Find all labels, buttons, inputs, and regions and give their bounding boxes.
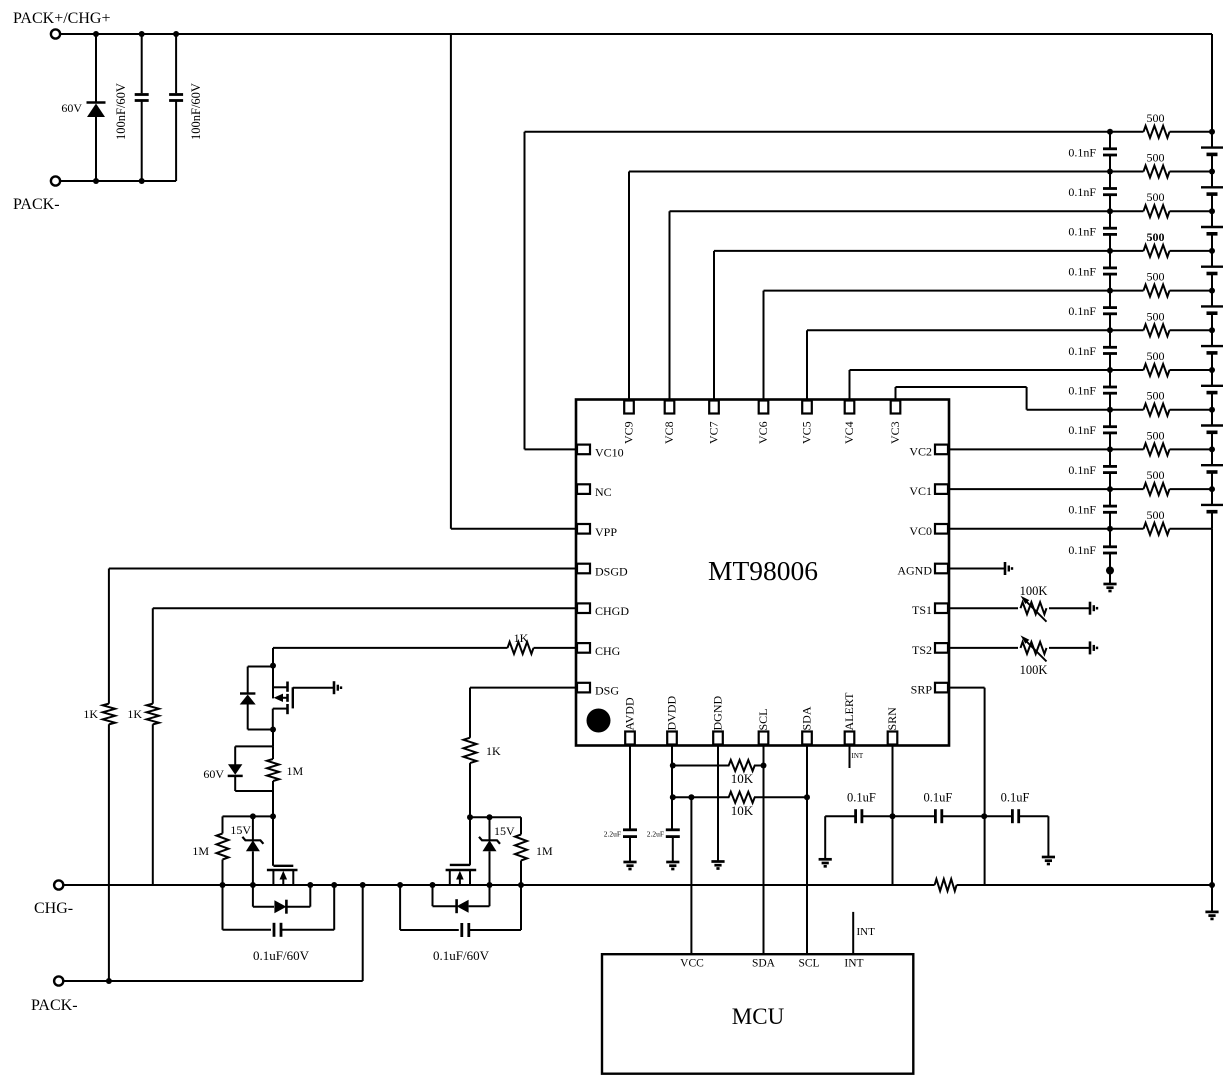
junction SRN filter xyxy=(890,813,896,819)
pin VC5 (top) xyxy=(802,401,812,414)
resistor R11 500 (row VC0) xyxy=(1110,528,1144,530)
wire VC0 trace xyxy=(949,528,1110,530)
svg-text:INT: INT xyxy=(852,752,864,760)
resistor R9 500 (row VC2) xyxy=(1110,448,1144,450)
pin SDA (bottom) xyxy=(802,732,812,745)
svg-text:TS2: TS2 xyxy=(912,643,932,657)
svg-text:10K: 10K xyxy=(731,803,754,818)
IC U1 MT98006 body xyxy=(576,400,949,746)
junction bus/row VC7 xyxy=(1107,248,1113,254)
svg-text:NC: NC xyxy=(595,485,612,499)
wire TS1 left xyxy=(949,607,1018,609)
junction rail cap-r Q2 xyxy=(331,882,337,888)
resistor R6 500 (row VC5) xyxy=(1110,329,1144,331)
junction rail 1M Q2 xyxy=(220,882,226,888)
junction bus/row VC10 xyxy=(1107,129,1113,135)
svg-text:0.1uF: 0.1uF xyxy=(847,791,876,805)
svg-text:0.1nF: 0.1nF xyxy=(1068,344,1096,358)
svg-text:VC8: VC8 xyxy=(662,421,676,444)
capacitor C 0.1uF (SRP-GND) xyxy=(1011,809,1014,823)
svg-text:VC0: VC0 xyxy=(909,524,932,538)
svg-text:0.1nF: 0.1nF xyxy=(1068,185,1096,199)
svg-text:500: 500 xyxy=(1147,349,1165,363)
svg-text:500: 500 xyxy=(1147,190,1165,204)
svg-text:VC4: VC4 xyxy=(842,421,856,444)
AGND stub symbol xyxy=(1004,562,1007,575)
capacitor C 0.1nF (VC1-VC0) xyxy=(1109,489,1111,506)
wire Q3 gate lead xyxy=(469,817,471,865)
svg-text:2.2uF: 2.2uF xyxy=(647,830,664,839)
junction bus/row VC9 xyxy=(1107,169,1113,175)
junction cell bus/row VC10 xyxy=(1209,129,1215,135)
wire VC9 trace xyxy=(628,172,630,400)
wire DGND xyxy=(717,746,719,862)
wire Q1 source lead xyxy=(272,666,274,699)
wire DSGD xyxy=(109,568,576,570)
svg-text:CHG: CHG xyxy=(595,644,621,658)
svg-text:0.1uF/60V: 0.1uF/60V xyxy=(253,948,310,963)
svg-text:60V: 60V xyxy=(203,767,224,781)
junction Q1 drain node xyxy=(270,727,276,733)
svg-text:0.1nF: 0.1nF xyxy=(1068,423,1096,437)
resistor R 1K (DSG) xyxy=(464,738,477,763)
capacitor C 0.1nF (VC6-VC5) xyxy=(1109,291,1111,308)
svg-text:0.1nF: 0.1nF xyxy=(1068,145,1096,159)
svg-text:DSG: DSG xyxy=(595,684,619,698)
junction link top xyxy=(360,882,366,888)
junction gate-zener Q3 xyxy=(487,814,493,820)
svg-text:VCC: VCC xyxy=(680,958,704,970)
junction 10K1 SCL xyxy=(761,763,767,769)
wire C1 branch xyxy=(141,34,143,93)
pin SCL (bottom) xyxy=(759,732,769,745)
capacitor C2 100nF/60V xyxy=(169,93,183,96)
svg-text:AVDD: AVDD xyxy=(623,697,637,730)
wire cell bus bottom xyxy=(1211,529,1213,885)
battery cell B7 xyxy=(1211,251,1213,266)
svg-text:VC5: VC5 xyxy=(800,421,814,444)
capacitor C 0.1nF (VC4-VC3) xyxy=(1109,370,1111,387)
pin SRN (bottom) xyxy=(888,732,898,745)
capacitor C 0.1nF (VC8-VC7) xyxy=(1109,211,1111,228)
junction bus/row VC6 xyxy=(1107,288,1113,294)
svg-text:VC2: VC2 xyxy=(909,444,932,458)
transistor Q3 legs xyxy=(449,870,451,885)
ground cell bus xyxy=(1211,885,1213,911)
wire C2 branch xyxy=(175,34,177,93)
wire VC7 trace xyxy=(713,251,715,400)
junction cell bus/row VC7 xyxy=(1209,248,1215,254)
wire Q1 gate lead xyxy=(293,687,333,689)
svg-text:0.1nF: 0.1nF xyxy=(1068,503,1096,517)
wire CHG left xyxy=(273,647,508,649)
pin VC7 (top) xyxy=(709,401,719,414)
wire VC8 trace xyxy=(669,211,671,399)
wire filter mid1 xyxy=(862,815,936,817)
pin TS1 (right) xyxy=(935,603,948,613)
svg-text:1M: 1M xyxy=(192,844,209,858)
svg-text:500: 500 xyxy=(1147,309,1165,323)
svg-text:VC9: VC9 xyxy=(622,421,636,444)
wire TS2 left xyxy=(949,647,1018,649)
svg-text:500: 500 xyxy=(1147,270,1165,284)
capacitor C 0.1nF (VC3-VC2) xyxy=(1109,410,1111,427)
transistor Q1 body arrow xyxy=(280,697,288,699)
svg-text:1M: 1M xyxy=(287,764,304,778)
svg-text:SCL: SCL xyxy=(756,708,770,730)
thermistor RT1 100K xyxy=(1021,602,1047,614)
pin VC9 (top) xyxy=(624,401,634,414)
transistor Q1 contacts xyxy=(286,682,289,692)
svg-text:MT98006: MT98006 xyxy=(708,555,818,586)
ground DGND xyxy=(711,860,724,863)
wire filter mid2 xyxy=(942,815,1013,817)
junction on PACK+ rail at D1 xyxy=(93,31,99,37)
capacitor C 0.1uF (SRN-GND) xyxy=(854,809,857,823)
terminal CHG- xyxy=(54,880,63,889)
transistor Q3 channel xyxy=(446,869,477,872)
IC pin-1 marker xyxy=(587,709,611,733)
svg-text:500: 500 xyxy=(1147,508,1165,522)
wire SCL to MCU xyxy=(763,746,765,955)
pin VC2 (right) xyxy=(935,445,948,455)
svg-text:100nF/60V: 100nF/60V xyxy=(114,83,128,140)
svg-text:0.1uF/60V: 0.1uF/60V xyxy=(433,948,490,963)
sense resistor R shunt xyxy=(935,879,957,891)
transistor Q2 channel xyxy=(267,869,298,872)
svg-text:SDA: SDA xyxy=(800,706,814,730)
junction on PACK+ rail at C1 xyxy=(139,31,145,37)
svg-text:INT: INT xyxy=(857,926,876,938)
pin AGND (right) xyxy=(935,564,948,574)
svg-text:VC1: VC1 xyxy=(909,484,932,498)
capacitor C 0.1nF (VC7-VC6) xyxy=(1109,251,1111,268)
pin DSGD (left) xyxy=(577,564,590,574)
wire TS2 right xyxy=(1049,647,1089,649)
battery cell B1 xyxy=(1211,489,1213,504)
svg-text:1M: 1M xyxy=(536,844,553,858)
svg-text:500: 500 xyxy=(1147,468,1165,482)
pin DGND (bottom) xyxy=(713,732,723,745)
svg-text:100K: 100K xyxy=(1020,584,1048,598)
svg-text:0.1nF: 0.1nF xyxy=(1068,543,1096,557)
battery cell B2 xyxy=(1211,449,1213,464)
junction bus/row VC1 xyxy=(1107,486,1113,492)
diode D2 symbol xyxy=(240,692,255,694)
pin VC1 (right) xyxy=(935,484,948,494)
wire VC3 trace xyxy=(895,387,897,400)
wire SRN xyxy=(892,746,894,886)
svg-text:TS1: TS1 xyxy=(912,603,932,617)
svg-text:15V: 15V xyxy=(230,823,251,837)
wire VC2 trace xyxy=(949,448,1110,450)
junction rail zener Q2 xyxy=(250,882,256,888)
resistor R3 500 (row VC8) xyxy=(1110,210,1144,212)
junction cell bus/row VC5 xyxy=(1209,327,1215,333)
wire Q2 gate lead xyxy=(272,816,274,865)
capacitor C 2.2uF (AVDD) xyxy=(623,828,637,831)
battery cell B9 xyxy=(1211,172,1213,187)
svg-text:DVDD: DVDD xyxy=(665,696,679,731)
svg-text:VC7: VC7 xyxy=(707,421,721,444)
svg-text:MCU: MCU xyxy=(732,1004,785,1029)
capacitor C 2.2uF (DVDD) xyxy=(666,828,680,831)
ground filter left xyxy=(819,858,832,861)
junction cell bus/row VC3 xyxy=(1209,407,1215,413)
transistor Q3 gate bar xyxy=(450,864,471,866)
diode D1 60V TVS xyxy=(87,101,106,104)
wire VC5 trace xyxy=(806,330,808,399)
pin DSG (left) xyxy=(577,683,590,693)
ground DVDD xyxy=(666,861,679,864)
junction cell bus/row VC6 xyxy=(1209,288,1215,294)
snubber cap C 0.1uF/60V (Q3) xyxy=(399,885,401,930)
svg-text:1K: 1K xyxy=(486,744,501,758)
svg-text:60V: 60V xyxy=(61,101,82,115)
resistor R 1K (CHGD) xyxy=(147,704,159,725)
svg-text:0.1nF: 0.1nF xyxy=(1068,264,1096,278)
capacitor C1 100nF/60V xyxy=(135,93,149,96)
wire CHGD xyxy=(153,607,576,609)
wire ALERT stub xyxy=(849,746,851,769)
junction rail zener Q3 xyxy=(487,882,493,888)
wire zener pair top xyxy=(272,730,274,747)
svg-text:10K: 10K xyxy=(731,771,754,786)
wire VC1 trace xyxy=(949,488,1110,490)
pin VC10 (left) xyxy=(577,445,590,455)
svg-text:CHGD: CHGD xyxy=(595,604,629,618)
resistor R7 500 (row VC4) xyxy=(1110,369,1144,371)
wire DSGD lower xyxy=(108,724,110,981)
capacitor C 0.1nF (VC10-VC9) xyxy=(1109,132,1111,149)
svg-text:DSGD: DSGD xyxy=(595,565,628,579)
resistor R8 500 (row VC3) xyxy=(1110,409,1144,411)
body diode D7 (Q3) xyxy=(432,885,434,906)
pin VC0 (right) xyxy=(935,524,948,534)
resistor R10 500 (row VC1) xyxy=(1110,488,1144,490)
junction rail diode-l Q3 xyxy=(430,882,436,888)
svg-text:0.1nF: 0.1nF xyxy=(1068,384,1096,398)
transistor Q2 arrow xyxy=(282,876,284,884)
wire SDA to MCU xyxy=(806,746,808,955)
svg-text:VPP: VPP xyxy=(595,525,617,539)
pin SRP (right) xyxy=(935,683,948,693)
junction ladder bus bottom xyxy=(1106,567,1114,575)
svg-text:VC6: VC6 xyxy=(756,421,770,444)
battery cell B4 xyxy=(1211,370,1213,385)
capacitor C 0.1uF (SRN-SRP) xyxy=(934,809,937,823)
wire VCC to MCU xyxy=(690,797,692,954)
terminal PACK- upper xyxy=(51,176,60,185)
junction PACK- DSGD xyxy=(106,978,112,984)
junction DVDD 10K1 xyxy=(670,763,676,769)
junction gate-main Q3 xyxy=(467,814,473,820)
Q1 gate stub symbol xyxy=(333,681,336,694)
zener D6 15V (Q3) xyxy=(489,817,491,840)
zener D3 60V xyxy=(234,746,236,765)
snubber cap C 0.1uF/60V (Q2) xyxy=(222,885,224,930)
svg-text:1K: 1K xyxy=(127,707,142,721)
wire cell bus top xyxy=(1211,34,1213,132)
pin CHG (left) xyxy=(577,643,590,653)
pin VC6 (top) xyxy=(759,401,769,414)
resistor R4 500 (row VC7) xyxy=(1110,250,1144,252)
resistor R 10K (SDA pullup) xyxy=(672,796,729,798)
pin VC4 (top) xyxy=(845,401,855,414)
wire DVDD xyxy=(671,746,673,830)
wire AGND xyxy=(949,568,1004,570)
junction DVDD 10K2 xyxy=(670,794,676,800)
wire DSG xyxy=(470,687,576,689)
junction 10K2 SDA xyxy=(804,794,810,800)
junction bus/row VC8 xyxy=(1107,208,1113,214)
TS1 stub symbol xyxy=(1089,602,1092,615)
terminal PACK+/CHG+ xyxy=(51,29,60,38)
pin AVDD (bottom) xyxy=(625,732,635,745)
resistor R 1K (CHG) xyxy=(508,642,534,654)
svg-text:SCL: SCL xyxy=(798,958,819,970)
junction cell bus/row VC1 xyxy=(1209,486,1215,492)
junction rail 1M Q3 xyxy=(518,882,524,888)
wire SRP xyxy=(949,687,985,689)
body diode D5 (Q2) xyxy=(252,885,254,907)
wire VPP from PACK+ rail xyxy=(450,34,452,529)
wire Q1 drain lead xyxy=(273,708,288,710)
wire gate node top xyxy=(223,815,274,817)
svg-text:500: 500 xyxy=(1147,428,1165,442)
resistor R5 500 (row VC6) xyxy=(1110,290,1144,292)
svg-text:500: 500 xyxy=(1147,389,1165,403)
wire zener pair bottom xyxy=(235,790,273,792)
transistor Q3 arrow xyxy=(459,876,461,884)
junction rail cap-l Q3 xyxy=(397,882,403,888)
svg-text:PACK-: PACK- xyxy=(13,196,60,213)
resistor R 1M (Q3 GS) xyxy=(520,817,522,834)
ground ladder bus xyxy=(1103,583,1116,586)
junction bus/row VC3 xyxy=(1107,407,1113,413)
capacitor C 0.1nF (VC0-GND) xyxy=(1109,529,1111,547)
wire D2 top xyxy=(248,666,273,668)
pin VC8 (top) xyxy=(665,401,675,414)
resistor R 1M (gate) xyxy=(272,746,274,759)
wire PACK- upper rail xyxy=(60,180,176,182)
resistor R 1M (Q2 GS) xyxy=(222,816,224,833)
svg-text:CHG-: CHG- xyxy=(34,900,73,917)
junction bus/row VC2 xyxy=(1107,446,1113,452)
junction rail diode-r Q2 xyxy=(307,882,313,888)
wire VC10 trace xyxy=(525,448,577,450)
capacitor C 0.1nF (VC9-VC8) xyxy=(1109,172,1111,189)
junction cell bus/row VC8 xyxy=(1209,208,1215,214)
svg-text:0.1nF: 0.1nF xyxy=(1068,463,1096,477)
junction gate-main xyxy=(270,813,276,819)
wire D2 bottom xyxy=(248,729,273,731)
capacitor C 0.1nF (VC5-VC4) xyxy=(1109,330,1111,347)
junction cell bus/row VC9 xyxy=(1209,169,1215,175)
wire filter right xyxy=(1019,815,1049,817)
wire VC4 trace xyxy=(849,370,851,400)
svg-text:1K: 1K xyxy=(83,707,98,721)
svg-text:0.1uF: 0.1uF xyxy=(1001,791,1030,805)
wire CHG right xyxy=(534,647,577,649)
wire filter left xyxy=(825,815,855,817)
pin TS2 (right) xyxy=(935,643,948,653)
svg-text:0.1uF: 0.1uF xyxy=(923,791,952,805)
svg-text:500: 500 xyxy=(1147,111,1165,125)
MCU box xyxy=(602,954,913,1073)
junction cell bus/row VC2 xyxy=(1209,446,1215,452)
svg-text:PACK-: PACK- xyxy=(31,997,78,1014)
svg-text:DGND: DGND xyxy=(711,696,725,731)
thermistor RT2 100K xyxy=(1021,642,1047,654)
svg-text:1K: 1K xyxy=(514,631,529,645)
junction gate-zener xyxy=(250,813,256,819)
wire D1 branch xyxy=(95,34,97,103)
junction on PACK+ rail at C2 xyxy=(173,31,179,37)
svg-text:AGND: AGND xyxy=(897,564,932,578)
svg-text:500: 500 xyxy=(1147,230,1165,244)
wire CHG- rail left xyxy=(63,884,934,886)
pin CHGD (left) xyxy=(577,603,590,613)
ground filter right xyxy=(1042,856,1055,859)
wire INT stub MCU xyxy=(852,912,854,954)
wire VC6 trace xyxy=(763,291,765,400)
terminal PACK- lower xyxy=(54,976,63,985)
wire PACK+ rail xyxy=(60,33,1212,35)
battery cell B10 xyxy=(1211,132,1213,147)
junction VCC tap xyxy=(688,794,694,800)
junction bus/row VC4 xyxy=(1107,367,1113,373)
svg-text:0.1nF: 0.1nF xyxy=(1068,304,1096,318)
svg-text:INT: INT xyxy=(844,958,863,970)
svg-text:SDA: SDA xyxy=(752,958,776,970)
svg-text:100K: 100K xyxy=(1020,663,1048,677)
junction rail cell-bus xyxy=(1209,882,1215,888)
junction PACK- upper at D1 xyxy=(93,178,99,184)
svg-text:VC3: VC3 xyxy=(888,421,902,444)
zener D4 15V (Q2) xyxy=(252,816,254,840)
svg-text:SRN: SRN xyxy=(885,707,899,731)
resistor R 1K (DSGD) xyxy=(103,704,115,725)
transistor Q2 legs xyxy=(272,870,274,885)
wire TS1 right xyxy=(1049,607,1089,609)
body diode D2 (Q1) xyxy=(247,667,249,694)
TS2 stub symbol xyxy=(1089,641,1092,654)
pin VPP (left) xyxy=(577,524,590,534)
battery cell B5 xyxy=(1211,330,1213,345)
pin VC3 (top) xyxy=(891,401,901,414)
resistor R 10K (SCL pullup) xyxy=(672,765,729,767)
pin ALERT (bottom) xyxy=(845,732,855,745)
wire PACK- rail xyxy=(63,980,362,982)
ground AVDD xyxy=(623,861,636,864)
wire CHG- rail right xyxy=(957,884,1212,886)
battery cell B6 xyxy=(1211,291,1213,306)
wire CHGD lower xyxy=(152,724,154,885)
junction cell bus/row VC4 xyxy=(1209,367,1215,373)
svg-text:PACK+/CHG+: PACK+/CHG+ xyxy=(13,10,110,27)
svg-text:2.2uF: 2.2uF xyxy=(604,830,621,839)
junction bus/row VC5 xyxy=(1107,327,1113,333)
battery cell B3 xyxy=(1211,410,1213,425)
transistor Q1 gate bar xyxy=(292,687,294,708)
resistor R2 500 (row VC9) xyxy=(1110,171,1144,173)
battery cell B8 xyxy=(1211,211,1213,226)
svg-text:100nF/60V: 100nF/60V xyxy=(189,83,203,140)
capacitor C 0.1nF (VC2-VC1) xyxy=(1109,449,1111,466)
svg-text:500: 500 xyxy=(1147,151,1165,165)
wire PACK- link xyxy=(362,885,364,981)
